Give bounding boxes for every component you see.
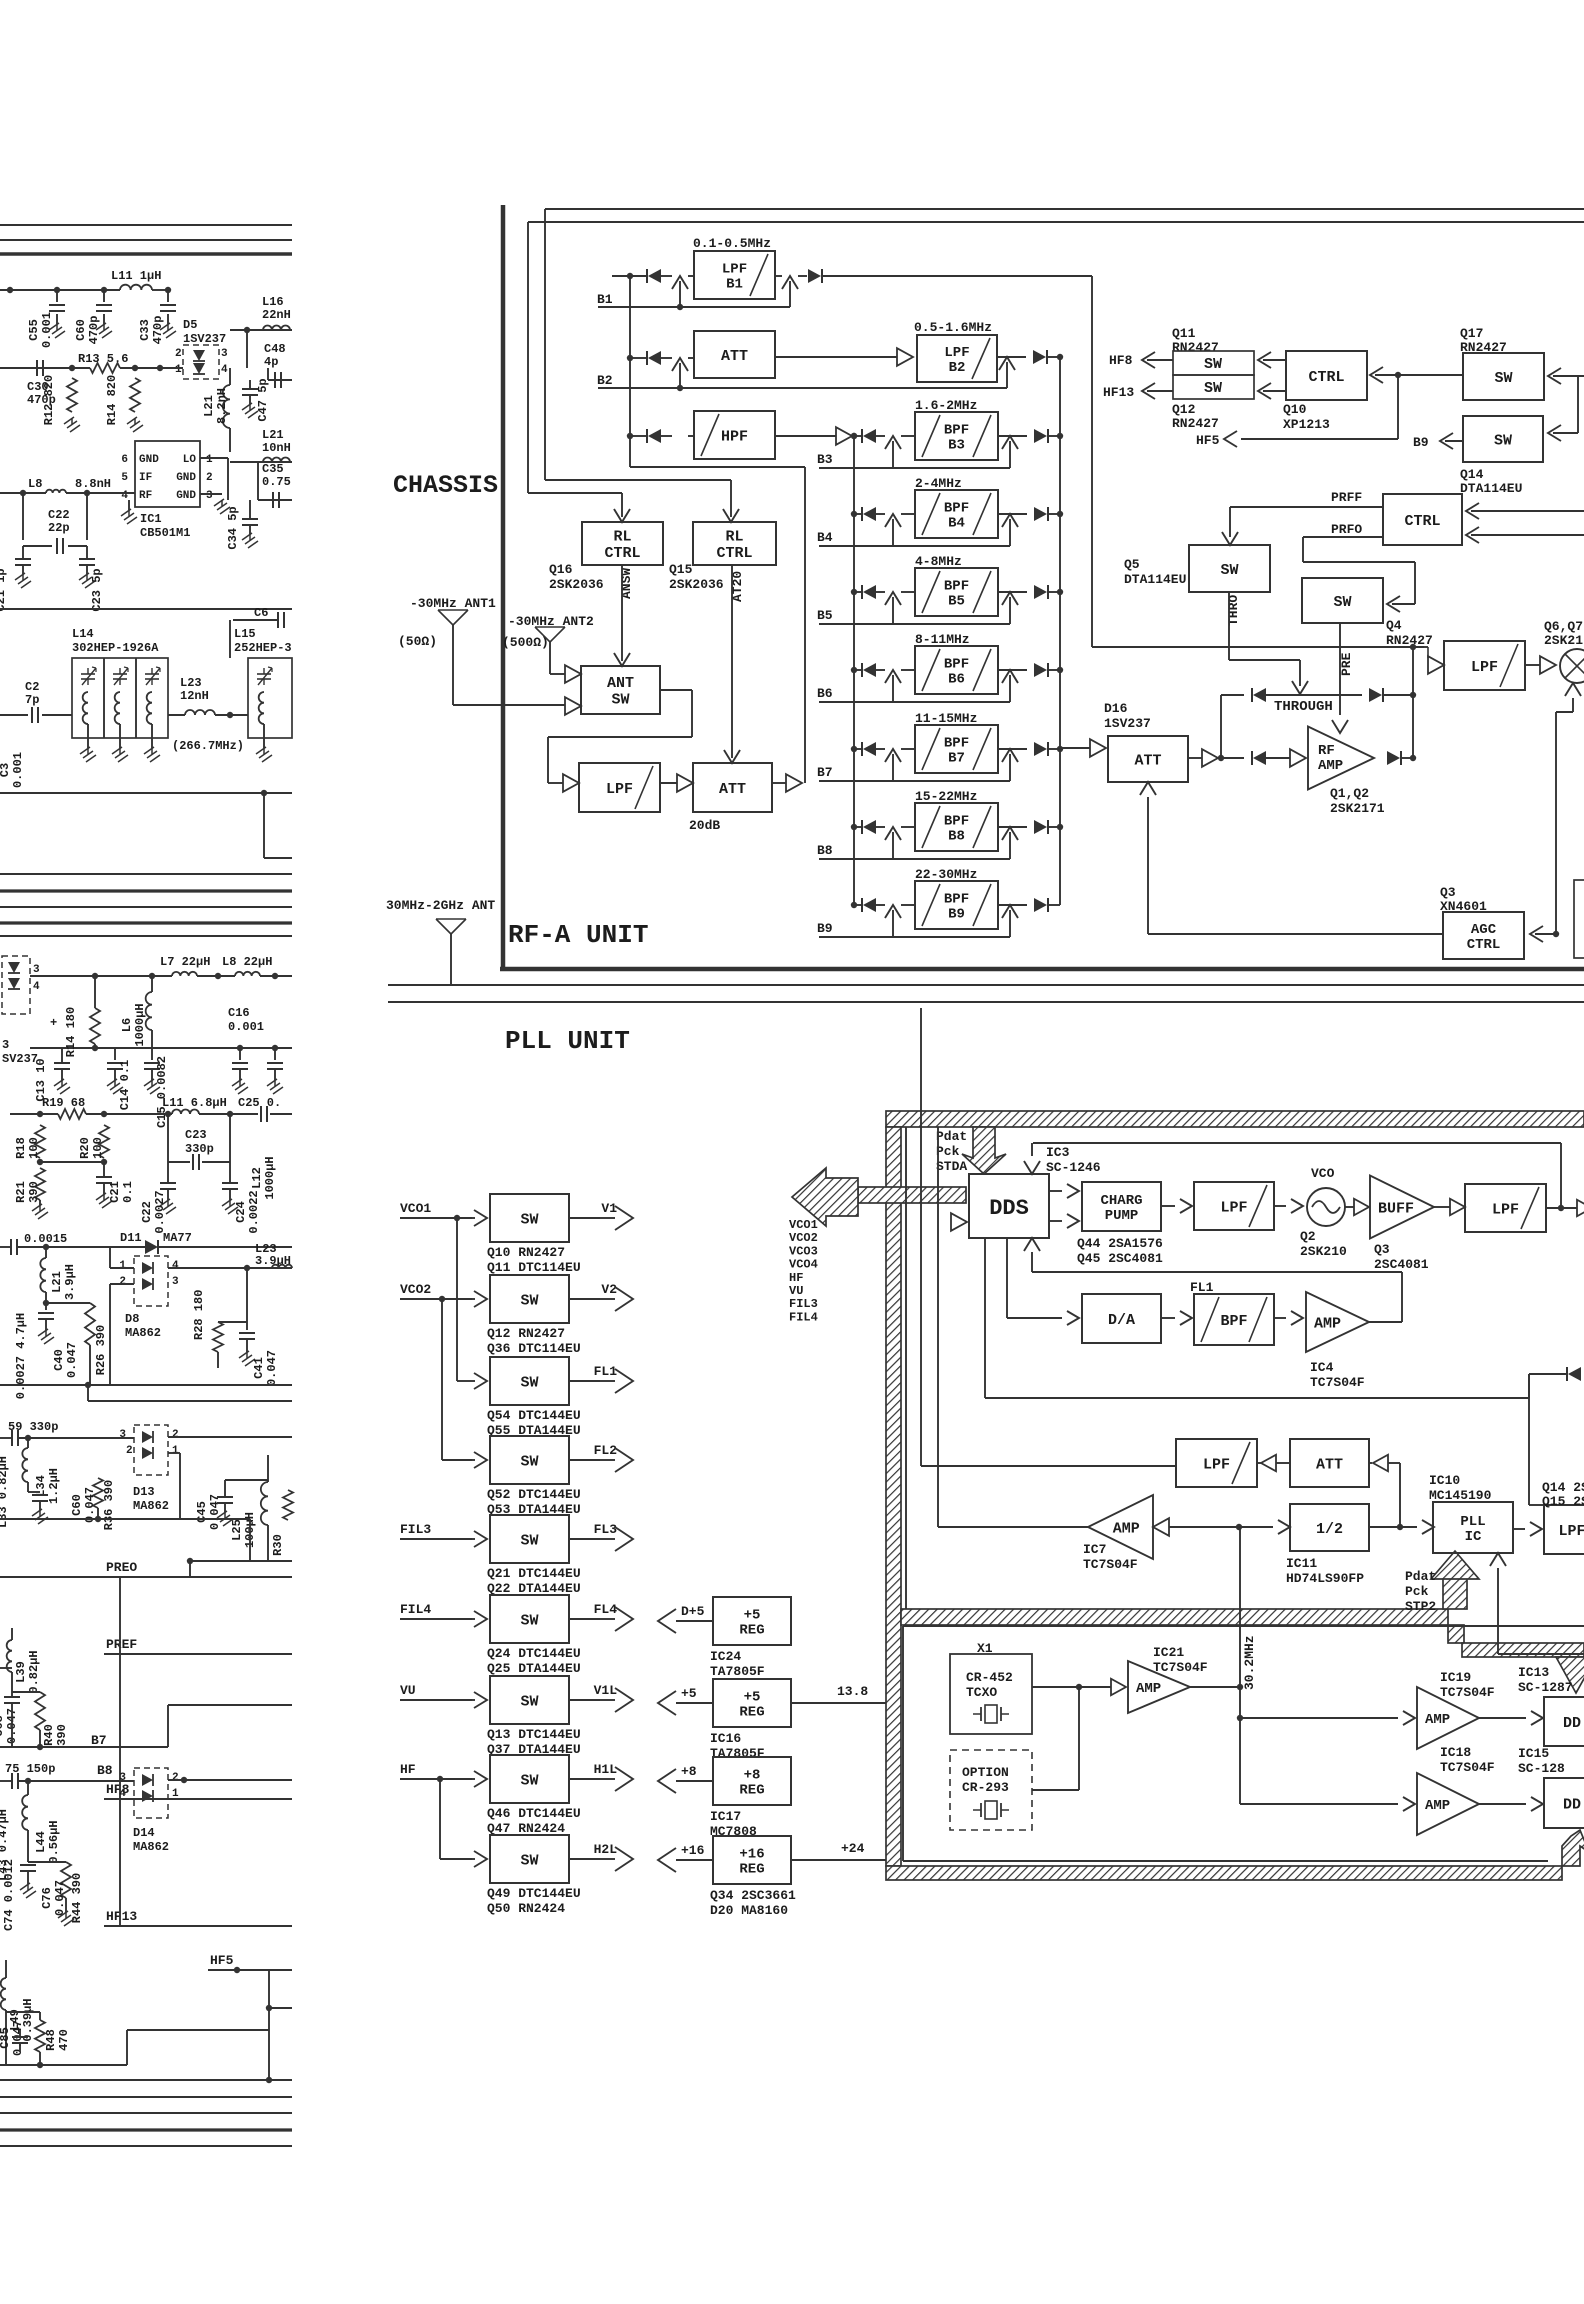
- svg-text:C40: C40: [52, 1349, 66, 1371]
- svg-text:V1L: V1L: [594, 1683, 618, 1698]
- svg-text:SW: SW: [520, 1532, 538, 1549]
- svg-text:SW: SW: [520, 1693, 538, 1710]
- svg-text:PUMP: PUMP: [1105, 1208, 1139, 1224]
- svg-text:+5: +5: [681, 1686, 697, 1701]
- svg-text:C23 5p: C23 5p: [90, 568, 104, 611]
- svg-text:8.8nH: 8.8nH: [75, 477, 111, 491]
- svg-text:L39: L39: [14, 1661, 28, 1683]
- svg-text:PREO: PREO: [106, 1560, 137, 1575]
- svg-text:Q13 DTC144EU: Q13 DTC144EU: [487, 1727, 581, 1742]
- svg-text:+16: +16: [739, 1846, 764, 1862]
- svg-text:1: 1: [175, 364, 182, 376]
- svg-text:MC145190: MC145190: [1429, 1488, 1492, 1503]
- svg-text:(266.7MHz): (266.7MHz): [172, 739, 244, 753]
- svg-text:LPF: LPF: [1220, 1199, 1247, 1216]
- svg-text:CR-293: CR-293: [962, 1780, 1009, 1795]
- svg-text:3.9µH: 3.9µH: [63, 1264, 77, 1300]
- svg-text:BPF: BPF: [944, 500, 969, 516]
- svg-text:2SK2036: 2SK2036: [549, 577, 604, 592]
- svg-text:1SV237: 1SV237: [183, 332, 226, 346]
- svg-text:Q10 RN2427: Q10 RN2427: [487, 1245, 565, 1260]
- svg-text:4: 4: [33, 981, 40, 993]
- svg-text:RL: RL: [613, 529, 631, 546]
- svg-text:B9: B9: [1413, 435, 1429, 450]
- svg-text:XP1213: XP1213: [1283, 417, 1330, 432]
- svg-text:TC7S04F: TC7S04F: [1153, 1660, 1208, 1675]
- svg-text:V1: V1: [601, 1201, 617, 1216]
- svg-text:0.001: 0.001: [11, 752, 25, 788]
- svg-text:R26 390: R26 390: [94, 1325, 108, 1375]
- svg-text:BUFF: BUFF: [1378, 1200, 1414, 1217]
- svg-text:LPF: LPF: [1558, 1523, 1584, 1540]
- svg-text:B7: B7: [91, 1733, 107, 1748]
- svg-text:D20 MA8160: D20 MA8160: [710, 1903, 788, 1918]
- svg-text:B1: B1: [597, 292, 613, 307]
- svg-text:GND: GND: [139, 454, 159, 466]
- svg-text:VCO2: VCO2: [400, 1282, 431, 1297]
- svg-text:L12: L12: [250, 1167, 264, 1189]
- svg-text:AMP: AMP: [1425, 1712, 1450, 1728]
- svg-text:3: 3: [119, 1429, 126, 1441]
- svg-text:IC24: IC24: [710, 1649, 741, 1664]
- svg-text:TC7S04F: TC7S04F: [1083, 1557, 1138, 1572]
- svg-text:FL4: FL4: [594, 1602, 618, 1617]
- svg-text:MA862: MA862: [133, 1840, 169, 1854]
- svg-text:VU: VU: [400, 1683, 416, 1698]
- svg-text:13.8: 13.8: [837, 1684, 868, 1699]
- svg-text:L6: L6: [120, 1018, 134, 1032]
- svg-text:B8: B8: [97, 1763, 113, 1778]
- svg-text:RN2427: RN2427: [1172, 340, 1219, 355]
- svg-text:Pdat: Pdat: [1405, 1569, 1436, 1584]
- svg-text:AMP: AMP: [1425, 1798, 1450, 1814]
- svg-text:D11: D11: [120, 1231, 142, 1245]
- svg-text:B3: B3: [817, 452, 833, 467]
- svg-text:SW: SW: [1204, 380, 1222, 397]
- svg-text:Q36 DTC114EU: Q36 DTC114EU: [487, 1341, 581, 1356]
- svg-text:3: 3: [172, 1276, 179, 1288]
- svg-text:0.82µH: 0.82µH: [27, 1650, 41, 1693]
- svg-text:6: 6: [121, 454, 128, 466]
- svg-text:GND: GND: [176, 490, 196, 502]
- svg-text:R30: R30: [271, 1534, 285, 1556]
- svg-text:0.047: 0.047: [83, 1487, 97, 1523]
- svg-text:R21: R21: [14, 1181, 28, 1203]
- svg-text:7p: 7p: [25, 693, 39, 707]
- svg-text:RF: RF: [139, 490, 152, 502]
- svg-text:Q47 RN2424: Q47 RN2424: [487, 1821, 565, 1836]
- svg-text:IC18: IC18: [1440, 1745, 1471, 1760]
- svg-text:Q5: Q5: [1124, 557, 1140, 572]
- svg-text:CR-452: CR-452: [966, 1670, 1013, 1685]
- svg-text:HF8: HF8: [106, 1782, 130, 1797]
- svg-text:C34 5p: C34 5p: [226, 506, 240, 549]
- svg-text:SC-128: SC-128: [1518, 1761, 1565, 1776]
- svg-text:HF13: HF13: [1103, 385, 1134, 400]
- svg-text:B7: B7: [948, 751, 965, 767]
- svg-text:L7 22µH: L7 22µH: [160, 955, 210, 969]
- svg-text:L21: L21: [202, 395, 216, 417]
- svg-text:FIL3: FIL3: [400, 1522, 431, 1537]
- svg-text:D16: D16: [1104, 701, 1128, 716]
- svg-text:IC7: IC7: [1083, 1542, 1106, 1557]
- svg-text:STP2: STP2: [1405, 1599, 1436, 1614]
- svg-text:LPF: LPF: [722, 261, 747, 277]
- svg-text:L14: L14: [72, 627, 94, 641]
- svg-text:REG: REG: [739, 1783, 764, 1799]
- svg-text:FL1: FL1: [594, 1364, 618, 1379]
- svg-text:0.001: 0.001: [40, 312, 54, 348]
- svg-text:STDA: STDA: [936, 1159, 967, 1174]
- svg-text:C60: C60: [70, 1494, 84, 1516]
- svg-text:L11 1µH: L11 1µH: [111, 269, 161, 283]
- svg-text:LO: LO: [183, 454, 197, 466]
- svg-text:12nH: 12nH: [180, 689, 209, 703]
- svg-text:C16: C16: [228, 1006, 250, 1020]
- svg-text:10nH: 10nH: [262, 441, 291, 455]
- svg-text:L23: L23: [180, 676, 202, 690]
- svg-text:R18: R18: [14, 1137, 28, 1159]
- svg-text:Q52 DTC144EU: Q52 DTC144EU: [487, 1487, 581, 1502]
- svg-text:CTRL: CTRL: [1467, 937, 1501, 953]
- svg-text:C76: C76: [40, 1887, 54, 1909]
- svg-text:330p: 330p: [185, 1142, 214, 1156]
- svg-text:470p: 470p: [151, 316, 165, 345]
- svg-text:SW: SW: [1220, 562, 1238, 579]
- svg-text:Q6,Q7: Q6,Q7: [1544, 619, 1583, 634]
- svg-text:2: 2: [206, 472, 213, 484]
- svg-text:+24: +24: [841, 1841, 865, 1856]
- svg-text:RF: RF: [1318, 743, 1335, 759]
- svg-text:C47 5p: C47 5p: [256, 378, 270, 421]
- svg-text:Q15: Q15: [669, 562, 693, 577]
- svg-text:IC13: IC13: [1518, 1665, 1549, 1680]
- svg-text:IC17: IC17: [710, 1809, 741, 1824]
- svg-text:390: 390: [55, 1724, 69, 1746]
- svg-text:IC19: IC19: [1440, 1670, 1471, 1685]
- svg-text:R20: R20: [78, 1137, 92, 1159]
- svg-text:1: 1: [119, 1260, 126, 1272]
- svg-text:HF5: HF5: [210, 1953, 234, 1968]
- svg-text:B7: B7: [817, 765, 833, 780]
- svg-text:C74 0.0012: C74 0.0012: [2, 1859, 16, 1931]
- svg-text:Pdat: Pdat: [936, 1129, 967, 1144]
- svg-text:AMP: AMP: [1113, 1520, 1140, 1537]
- svg-text:+5: +5: [744, 1607, 761, 1623]
- svg-text:2SC4081: 2SC4081: [1374, 1257, 1429, 1272]
- svg-text:BPF: BPF: [944, 813, 969, 829]
- svg-text:HPF: HPF: [721, 428, 748, 445]
- svg-text:IC11: IC11: [1286, 1556, 1317, 1571]
- svg-text:SW: SW: [520, 1612, 538, 1629]
- svg-text:22-30MHz: 22-30MHz: [915, 867, 977, 882]
- svg-text:ANT: ANT: [607, 675, 634, 692]
- svg-text:C33: C33: [138, 319, 152, 341]
- svg-text:ATT: ATT: [1316, 1456, 1343, 1473]
- svg-text:H1L: H1L: [594, 1762, 618, 1777]
- svg-text:RN2427: RN2427: [1386, 633, 1433, 648]
- svg-text:C22: C22: [140, 1201, 154, 1223]
- svg-text:Q54 DTC144EU: Q54 DTC144EU: [487, 1408, 581, 1423]
- svg-text:BPF: BPF: [944, 891, 969, 907]
- svg-text:B3: B3: [948, 438, 965, 454]
- svg-text:L34: L34: [34, 1475, 48, 1497]
- svg-text:SW: SW: [1204, 356, 1222, 373]
- svg-text:TCXO: TCXO: [966, 1685, 997, 1700]
- svg-text:+8: +8: [744, 1767, 761, 1783]
- svg-text:Q14 2S: Q14 2S: [1542, 1480, 1584, 1495]
- svg-text:Q11: Q11: [1172, 326, 1196, 341]
- svg-text:59 330p: 59 330p: [8, 1420, 58, 1434]
- svg-text:Q2: Q2: [1300, 1229, 1316, 1244]
- svg-text:3: 3: [119, 1772, 126, 1784]
- svg-text:RN2427: RN2427: [1172, 416, 1219, 431]
- svg-text:B5: B5: [817, 608, 833, 623]
- svg-text:B6: B6: [948, 672, 965, 688]
- svg-text:Q12 RN2427: Q12 RN2427: [487, 1326, 565, 1341]
- svg-text:SW: SW: [520, 1453, 538, 1470]
- svg-text:IC4: IC4: [1310, 1360, 1334, 1375]
- svg-text:4p: 4p: [264, 355, 278, 369]
- svg-text:R13 5.6: R13 5.6: [78, 352, 128, 366]
- svg-text:+16: +16: [681, 1843, 705, 1858]
- svg-text:CHASSIS: CHASSIS: [393, 471, 498, 500]
- svg-text:MA862: MA862: [133, 1499, 169, 1513]
- svg-text:R48: R48: [44, 2029, 58, 2051]
- svg-text:11-15MHz: 11-15MHz: [915, 711, 977, 726]
- svg-text:THROUGH: THROUGH: [1274, 699, 1333, 715]
- svg-text:VCO1: VCO1: [400, 1201, 431, 1216]
- svg-text:0.1-0.5MHz: 0.1-0.5MHz: [693, 236, 771, 251]
- svg-text:LPF: LPF: [1492, 1201, 1519, 1218]
- svg-text:Q45 2SC4081: Q45 2SC4081: [1077, 1251, 1163, 1266]
- svg-text:SW: SW: [520, 1211, 538, 1228]
- svg-text:0.1: 0.1: [121, 1181, 135, 1203]
- svg-text:0.047: 0.047: [208, 1494, 222, 1530]
- svg-text:IC21: IC21: [1153, 1645, 1184, 1660]
- svg-text:Q12: Q12: [1172, 402, 1196, 417]
- svg-text:0.047: 0.047: [53, 1880, 67, 1916]
- svg-text:100: 100: [91, 1137, 105, 1159]
- svg-text:HF: HF: [789, 1271, 803, 1285]
- svg-text:2: 2: [126, 1445, 133, 1457]
- svg-text:PLL UNIT: PLL UNIT: [505, 1026, 630, 1056]
- svg-text:L16: L16: [262, 295, 284, 309]
- svg-text:Q14: Q14: [1460, 467, 1484, 482]
- svg-text:B8: B8: [948, 829, 965, 845]
- svg-text:0.5-1.6MHz: 0.5-1.6MHz: [914, 320, 992, 335]
- svg-text:Q3: Q3: [1374, 1242, 1390, 1257]
- svg-text:BPF: BPF: [944, 578, 969, 594]
- svg-text:Q16: Q16: [549, 562, 573, 577]
- svg-text:(500Ω): (500Ω): [502, 635, 549, 650]
- svg-text:B4: B4: [817, 530, 833, 545]
- svg-text:0.75: 0.75: [262, 475, 291, 489]
- svg-text:+8: +8: [681, 1764, 697, 1779]
- svg-text:VU: VU: [789, 1284, 803, 1298]
- svg-text:L25: L25: [230, 1519, 244, 1541]
- svg-text:IC15: IC15: [1518, 1746, 1549, 1761]
- svg-text:L21: L21: [50, 1271, 64, 1293]
- svg-text:DTA114EU: DTA114EU: [1460, 481, 1522, 496]
- svg-text:Q34 2SC3661: Q34 2SC3661: [710, 1888, 796, 1903]
- svg-text:8.2nH: 8.2nH: [215, 388, 229, 424]
- svg-text:FIL4: FIL4: [400, 1602, 431, 1617]
- svg-text:ATT: ATT: [1134, 752, 1161, 769]
- svg-text:B6: B6: [817, 686, 833, 701]
- svg-text:IC10: IC10: [1429, 1473, 1460, 1488]
- svg-text:4: 4: [221, 364, 228, 376]
- svg-text:TA7805F: TA7805F: [710, 1746, 765, 1761]
- svg-text:R19 68: R19 68: [42, 1096, 85, 1110]
- svg-text:0.0027 4.7µH: 0.0027 4.7µH: [14, 1313, 28, 1399]
- svg-text:TA7805F: TA7805F: [710, 1664, 765, 1679]
- svg-text:SW: SW: [1333, 594, 1351, 611]
- svg-text:V2: V2: [601, 1282, 617, 1297]
- svg-text:LPF: LPF: [944, 345, 969, 361]
- svg-text:1.6-2MHz: 1.6-2MHz: [915, 398, 977, 413]
- svg-text:OPTION: OPTION: [962, 1765, 1009, 1780]
- svg-text:4: 4: [121, 490, 128, 502]
- svg-text:1.2µH: 1.2µH: [47, 1468, 61, 1504]
- svg-text:D8: D8: [125, 1312, 139, 1326]
- svg-text:VCO4: VCO4: [789, 1258, 818, 1272]
- svg-text:L15: L15: [234, 627, 256, 641]
- svg-text:2: 2: [119, 1276, 126, 1288]
- svg-text:SV237: SV237: [2, 1052, 38, 1066]
- svg-text:L21: L21: [262, 428, 284, 442]
- svg-text:PRFF: PRFF: [1331, 490, 1362, 505]
- svg-text:Q46 DTC144EU: Q46 DTC144EU: [487, 1806, 581, 1821]
- svg-text:SW: SW: [1494, 370, 1512, 387]
- svg-text:IC16: IC16: [710, 1731, 741, 1746]
- svg-text:SW: SW: [520, 1772, 538, 1789]
- svg-text:2SK2171: 2SK2171: [1330, 801, 1385, 816]
- svg-text:LPF: LPF: [1471, 659, 1498, 676]
- svg-text:CTRL: CTRL: [604, 545, 640, 562]
- svg-text:CTRL: CTRL: [1404, 513, 1440, 530]
- svg-text:MA77: MA77: [163, 1231, 192, 1245]
- svg-text:BPF: BPF: [944, 422, 969, 438]
- svg-text:C22: C22: [48, 508, 70, 522]
- svg-text:1SV237: 1SV237: [1104, 716, 1151, 731]
- svg-text:CTRL: CTRL: [716, 545, 752, 562]
- svg-text:TC7S04F: TC7S04F: [1310, 1375, 1365, 1390]
- svg-text:B2: B2: [949, 360, 966, 376]
- svg-text:Q22 DTA144EU: Q22 DTA144EU: [487, 1581, 581, 1596]
- svg-text:1: 1: [206, 454, 213, 466]
- svg-text:+5: +5: [744, 1689, 761, 1705]
- svg-text:D+5: D+5: [681, 1604, 705, 1619]
- svg-text:L44: L44: [34, 1831, 48, 1853]
- svg-text:Q49 DTC144EU: Q49 DTC144EU: [487, 1886, 581, 1901]
- svg-text:3: 3: [2, 1038, 9, 1052]
- svg-text:ATT: ATT: [719, 781, 746, 798]
- svg-text:C15 0.0082: C15 0.0082: [155, 1056, 169, 1128]
- svg-text:L8: L8: [28, 477, 42, 491]
- svg-text:DD: DD: [1563, 1715, 1581, 1732]
- svg-text:SW: SW: [520, 1292, 538, 1309]
- svg-text:Pck: Pck: [936, 1144, 960, 1159]
- svg-text:REG: REG: [739, 1623, 764, 1639]
- svg-text:3: 3: [33, 964, 40, 976]
- svg-text:DDS: DDS: [989, 1196, 1029, 1221]
- svg-text:BPF: BPF: [944, 735, 969, 751]
- svg-text:2SK210: 2SK210: [1300, 1244, 1347, 1259]
- svg-text:ATT: ATT: [721, 348, 748, 365]
- svg-text:Q4: Q4: [1386, 618, 1402, 633]
- svg-text:2: 2: [172, 1772, 179, 1784]
- svg-text:1: 1: [172, 1788, 179, 1800]
- svg-text:FIL3: FIL3: [789, 1297, 818, 1311]
- svg-text:+: +: [50, 1016, 57, 1030]
- svg-text:4: 4: [119, 1788, 126, 1800]
- svg-text:RF-A UNIT: RF-A UNIT: [508, 920, 648, 950]
- svg-text:TC7S04F: TC7S04F: [1440, 1760, 1495, 1775]
- svg-text:0.56µH: 0.56µH: [47, 1820, 61, 1863]
- svg-text:SC-1246: SC-1246: [1046, 1160, 1101, 1175]
- svg-text:0.047: 0.047: [65, 1342, 79, 1378]
- svg-text:8-11MHz: 8-11MHz: [915, 632, 970, 647]
- svg-text:LPF: LPF: [1203, 1456, 1230, 1473]
- svg-text:SC-1287: SC-1287: [1518, 1680, 1573, 1695]
- svg-text:H2L: H2L: [594, 1842, 618, 1857]
- svg-text:REG: REG: [739, 1705, 764, 1721]
- svg-text:HF5: HF5: [1196, 433, 1220, 448]
- svg-text:C41: C41: [252, 1357, 266, 1379]
- svg-text:REG: REG: [739, 1862, 764, 1878]
- svg-text:Q11 DTC114EU: Q11 DTC114EU: [487, 1260, 581, 1275]
- svg-text:BPF: BPF: [944, 656, 969, 672]
- svg-text:302HEP-1926A: 302HEP-1926A: [72, 641, 159, 655]
- svg-text:PREF: PREF: [106, 1637, 137, 1652]
- svg-text:VCO: VCO: [1311, 1166, 1335, 1181]
- svg-text:2: 2: [175, 348, 182, 360]
- svg-text:FL1: FL1: [1190, 1280, 1214, 1295]
- svg-text:Q24 DTC144EU: Q24 DTC144EU: [487, 1646, 581, 1661]
- svg-text:0.001: 0.001: [228, 1020, 264, 1034]
- svg-text:2: 2: [172, 1429, 179, 1441]
- svg-text:75 150p: 75 150p: [5, 1762, 55, 1776]
- svg-text:30.2MHz: 30.2MHz: [1242, 1635, 1257, 1690]
- svg-text:B1: B1: [726, 277, 743, 293]
- svg-text:IC: IC: [1465, 1529, 1482, 1545]
- svg-text:HF8: HF8: [1109, 353, 1133, 368]
- svg-text:1000µH: 1000µH: [263, 1156, 277, 1199]
- svg-text:2SK21: 2SK21: [1544, 633, 1583, 648]
- svg-text:AMP: AMP: [1314, 1315, 1341, 1332]
- svg-text:Q3: Q3: [1440, 885, 1456, 900]
- svg-text:AMP: AMP: [1318, 758, 1343, 774]
- svg-text:C48: C48: [264, 342, 286, 356]
- svg-text:3: 3: [221, 348, 228, 360]
- svg-text:R28 180: R28 180: [192, 1290, 206, 1340]
- svg-text:DD: DD: [1563, 1796, 1581, 1813]
- svg-text:0.047: 0.047: [265, 1350, 279, 1386]
- svg-text:FL3: FL3: [594, 1522, 618, 1537]
- svg-text:FIL4: FIL4: [789, 1310, 818, 1324]
- svg-text:B2: B2: [597, 373, 613, 388]
- svg-text:L33 0.82µH: L33 0.82µH: [0, 1456, 10, 1528]
- svg-text:IC3: IC3: [1046, 1145, 1070, 1160]
- svg-text:PLL: PLL: [1460, 1514, 1485, 1530]
- svg-text:LPF: LPF: [606, 781, 633, 798]
- svg-text:SW: SW: [520, 1374, 538, 1391]
- svg-text:C24: C24: [234, 1201, 248, 1223]
- svg-text:IC1: IC1: [140, 512, 162, 526]
- svg-text:VCO2: VCO2: [789, 1231, 818, 1245]
- svg-text:Q17: Q17: [1460, 326, 1483, 341]
